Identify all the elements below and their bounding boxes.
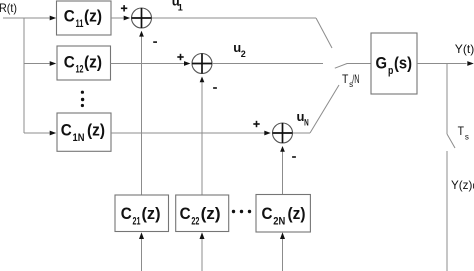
sampler switch arm Ts bbox=[447, 134, 455, 148]
node u2 label bbox=[233, 40, 246, 59]
minus sign summer 2 bbox=[213, 87, 217, 89]
wire u1 to sampler bbox=[152, 17, 317, 19]
plus sign summer 3 bbox=[253, 121, 259, 127]
arrowhead into C1N bbox=[50, 131, 57, 136]
arrowhead into C11 bbox=[50, 16, 57, 21]
minus sign summer 1 bbox=[153, 41, 157, 43]
svg-text:Y(t): Y(t) bbox=[455, 42, 474, 56]
svg-text:1: 1 bbox=[178, 3, 183, 13]
clipped glyph at right edge after Y(z) bbox=[473, 184, 474, 189]
svg-text:C: C bbox=[180, 204, 191, 223]
feedback block C21 bbox=[115, 195, 169, 232]
plant block Gp bbox=[371, 33, 417, 94]
arrowhead output Y(t) bbox=[467, 61, 474, 66]
svg-text:G: G bbox=[376, 54, 388, 73]
svg-text:12: 12 bbox=[76, 64, 84, 76]
svg-text:(z): (z) bbox=[84, 52, 102, 71]
node uN label bbox=[297, 109, 309, 128]
svg-text:(s): (s) bbox=[394, 54, 412, 73]
wire Gp output bbox=[417, 63, 467, 65]
summer (sum junction) 3 bbox=[273, 123, 293, 143]
controller block C11 bbox=[57, 1, 112, 35]
wire into C22 from below bbox=[201, 239, 203, 271]
node u1 label bbox=[172, 0, 183, 13]
svg-text:T: T bbox=[458, 124, 465, 138]
vertical ellipsis dots between C12 and C1N bbox=[81, 91, 85, 108]
svg-text:s: s bbox=[465, 133, 469, 142]
svg-text:Y(z): Y(z) bbox=[451, 178, 472, 192]
svg-text:11: 11 bbox=[76, 18, 84, 30]
svg-text:p: p bbox=[388, 65, 394, 77]
wire u2 to sampler bbox=[212, 63, 323, 65]
svg-text:C: C bbox=[64, 52, 75, 71]
svg-text:(z): (z) bbox=[84, 7, 102, 26]
arrowhead feedback into summer 3 bbox=[280, 146, 285, 152]
wire output branch down bbox=[446, 64, 448, 135]
arrowhead feedback into summer 1 bbox=[139, 31, 144, 37]
svg-text:C: C bbox=[262, 204, 273, 223]
controller block C1N bbox=[57, 113, 111, 151]
wire feedback 1 vertical to summer 1 bbox=[141, 36, 143, 195]
plus sign summer 2 bbox=[177, 54, 183, 60]
svg-text:(z): (z) bbox=[142, 204, 161, 223]
arrowhead into C22 bbox=[200, 232, 205, 239]
minus sign summer 3 bbox=[292, 156, 296, 158]
svg-text:22: 22 bbox=[191, 215, 199, 227]
feedback block C22 bbox=[176, 195, 229, 232]
svg-text:(z): (z) bbox=[288, 204, 306, 223]
svg-text:/N: /N bbox=[352, 72, 359, 86]
svg-text:(z): (z) bbox=[87, 121, 105, 140]
arrowhead feedback into summer 2 bbox=[200, 77, 205, 83]
svg-text:T: T bbox=[342, 72, 349, 86]
svg-text:2N: 2N bbox=[273, 215, 285, 227]
wire C11 output to summer 1 bbox=[111, 17, 124, 19]
label C12(z) bbox=[64, 52, 102, 75]
svg-text:C: C bbox=[121, 204, 132, 223]
label C1N(z) bbox=[61, 121, 105, 144]
svg-text:N: N bbox=[304, 118, 309, 128]
wire C1N output to summer 3 bbox=[111, 132, 265, 134]
svg-text:C: C bbox=[61, 121, 72, 140]
sampler switch arm u1 bbox=[316, 18, 332, 48]
arrowhead into summer 3 bbox=[264, 131, 271, 136]
wire branch to C12 bbox=[24, 63, 50, 65]
svg-text:2: 2 bbox=[241, 49, 246, 59]
wire C12 output to summer 2 bbox=[111, 63, 185, 65]
sampler switch arm common bbox=[335, 64, 371, 69]
label C21(z) bbox=[121, 204, 161, 227]
arrowhead into C12 bbox=[50, 61, 57, 66]
label Ts bbox=[458, 124, 469, 142]
svg-text:R(t): R(t) bbox=[0, 1, 17, 15]
svg-text:C: C bbox=[64, 7, 75, 26]
summer (sum junction) 1 bbox=[132, 8, 152, 28]
wire feedback 3 vertical to summer 3 bbox=[282, 151, 284, 195]
wire R(t) input horizontal to C11 bbox=[3, 17, 50, 19]
arrowhead into summer 1 bbox=[124, 16, 131, 21]
controller block C12 bbox=[57, 46, 111, 80]
svg-text:1N: 1N bbox=[73, 132, 85, 144]
svg-text:(z): (z) bbox=[201, 204, 221, 223]
wire into C21 from below bbox=[141, 239, 143, 271]
label C11(z) bbox=[64, 7, 102, 30]
label Gp(s) bbox=[376, 54, 413, 78]
arrowhead into summer 2 bbox=[184, 61, 191, 66]
label C22(z) bbox=[180, 204, 221, 227]
horizontal ellipsis dots between C22 and C2N bbox=[232, 210, 251, 213]
wire to Y(z) bbox=[446, 151, 448, 271]
wire R(t) branch vertical bbox=[23, 18, 25, 133]
svg-text:21: 21 bbox=[133, 215, 141, 227]
arrowhead into C21 bbox=[139, 232, 144, 239]
summer (sum junction) 2 bbox=[192, 54, 212, 74]
wire uN output bbox=[293, 132, 311, 134]
wire feedback 2 vertical to summer 2 bbox=[201, 82, 203, 195]
arrowhead into C2N bbox=[280, 232, 285, 239]
label C2N(z) bbox=[262, 204, 306, 227]
label Ts/N bbox=[342, 72, 360, 89]
wire branch to C1N bbox=[24, 132, 50, 134]
wire into C2N from below bbox=[282, 239, 284, 271]
feedback block C2N bbox=[256, 195, 310, 233]
sampler switch arm uN bbox=[310, 85, 339, 133]
plus sign summer 1 bbox=[121, 5, 127, 11]
